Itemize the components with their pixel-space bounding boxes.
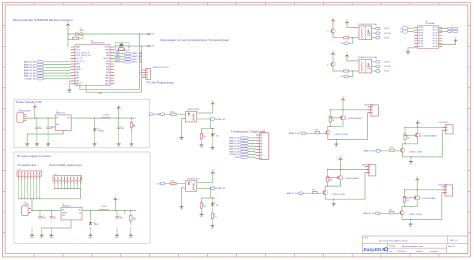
wire source to BJT (driver 3) [403,138,418,148]
wire VCC to crystal node [67,27,69,47]
svg-text:PA0: PA0 [76,71,79,74]
block box: power supply 3.3V [14,99,149,148]
transistor Q3b BC547 [400,148,404,152]
wire opto out [197,118,211,120]
capacitor C1 [35,118,42,130]
title block outline [363,236,468,254]
LED D3 [124,210,126,214]
wire U4 out rail [82,209,136,211]
svg-text:PA13: PA13 [105,80,109,83]
svg-text:8B IN8: 8B IN8 [419,46,424,48]
svg-text:R 1K: R 1K [171,111,174,113]
svg-text:OUT 7C: OUT 7C [432,43,438,45]
relay K1 RAS-0510 [359,26,372,40]
diode D2 1N5822 [89,210,99,226]
svg-text:SWCLK: SWCLK [132,62,139,64]
svg-text:1B IN1: 1B IN1 [419,27,424,29]
wire VCC to relay [347,58,359,61]
svg-text:K2-COM: K2-COM [384,66,391,68]
svg-text:PB9: PB9 [106,52,109,54]
wire resistor to base node (driver 2) [329,122,331,126]
resistor series (opto 2 LED) [211,206,217,219]
svg-text:2B IN2: 2B IN2 [419,30,424,32]
crystal load circle [80,33,83,36]
IC U2 ULN2003AN [418,26,439,49]
wire rail (driver 3) [405,126,446,128]
svg-text:DIGITAL_IN1: DIGITAL_IN1 [25,78,36,81]
svg-text:12V: 12V [339,157,342,159]
wire VCC to Q2 [332,56,334,62]
wire emitter bottom (driver 2) [328,113,368,140]
resistor 1K (driver 3) [390,147,395,151]
inductor L2 33uH [99,206,109,211]
transistor Q1 [331,29,335,33]
svg-text:Q1: Q1 [327,31,329,33]
transistor Q4b BC547 [323,190,327,194]
svg-text:BOOT0: BOOT0 [103,58,109,60]
net flag ANALOG_IN5 (MCU left) [24,72,71,75]
wire drain (driver 4) [339,170,341,175]
svg-text:5V: 5V [455,37,457,39]
wire IN2 port up [349,71,353,77]
svg-text:R 1K: R 1K [389,210,392,212]
svg-text:ANALOG_IN2: ANALOG_IN2 [229,139,240,142]
regulator U3 AMS1117-3.3 [51,115,71,130]
svg-text:GND: GND [180,209,183,211]
svg-text:R 1K: R 1K [315,130,318,132]
svg-text:GND: GND [410,163,413,165]
svg-text:Q 2N5551_C9014B: Q 2N5551_C9014B [409,214,422,216]
wire TTL pins [140,72,143,74]
svg-text:C1: C1 [39,127,41,129]
net port 3V3 out [149,113,161,116]
svg-text:EasyEDA: EasyEDA [364,247,386,253]
svg-text:3V3: 3V3 [139,59,142,61]
net flag ANALOG_IN5 (analog conn) [229,148,256,151]
power flag VCC (relay K1 coil) [345,20,349,25]
svg-text:R 1K: R 1K [390,147,393,149]
MOSFET Q3 [415,133,420,138]
wire U4 gnd [42,220,71,228]
svg-text:R: R [214,215,215,217]
wire base (driver 5) [394,212,400,214]
svg-text:GND: GND [93,146,96,148]
svg-text:TITLE:: TITLE: [364,238,369,240]
boxed crystal Y2 32kHz [115,43,130,51]
svg-text:5B IN5: 5B IN5 [419,38,424,40]
regulator U4 LM2596S-5.0 [61,207,82,220]
svg-text:GND: GND [130,146,133,148]
net port ANALOG_IN2 (driver 3) [364,150,381,153]
power flag VCC (relay K1 driver) [331,18,335,23]
power flag +3V3 out [117,105,121,110]
svg-text:Mekatronik Andalan Prima: Mekatronik Andalan Prima [402,245,423,248]
svg-text:ON/OFF: ON/OFF [62,212,67,214]
wire SWD vertical 1 [139,34,141,89]
wire R to opto [176,113,185,115]
resistor R1 (crystal) [72,37,78,39]
svg-text:CONNECTOR 01 02 03 04: CONNECTOR 01 02 03 04 [152,67,169,69]
wire U3 out rail [71,117,135,119]
IC U1 STM32F103C8T6 [75,45,110,86]
capacitor C2 [46,118,52,130]
power flag VCC (driver 2) [341,97,345,102]
svg-text:Sensor by Reza Alfiani Jielani: Sensor by Reza Alfiani Jielani [379,240,408,243]
svg-text:PB5: PB5 [106,66,109,68]
resistor 10K (driver 2) [329,116,335,122]
svg-text:VIN: VIN [56,118,58,120]
svg-text:GNDS: GNDS [235,157,241,159]
svg-text:OUT 5C: OUT 5C [432,38,438,40]
ground (5V block x=90.5) [89,227,93,239]
svg-text:PA12: PA12 [105,82,109,85]
IC U1 pin names [76,46,109,86]
svg-text:C3: C3 [121,127,123,129]
net port K2_NO [372,61,390,64]
svg-text:REV: 1.0: REV: 1.0 [450,240,457,242]
svg-text:CN6 MOTOR: CN6 MOTOR [364,105,374,107]
svg-text:Q2: Q2 [327,64,329,66]
svg-text:LED: LED [216,205,219,207]
svg-text:GND: GND [35,146,38,148]
net flag GND (top) [146,33,155,36]
resistor R3 220 [130,210,136,225]
svg-text:ANALOG_IN5: ANALOG_IN5 [24,72,36,75]
svg-text:10K: 10K [203,137,206,139]
transistor Q2b BC547 [326,131,330,135]
capacitor C4 [38,210,46,219]
wire bundle down to input [31,199,33,211]
svg-text:R: R [407,136,408,138]
LED D1 [93,118,104,132]
transistor Q2 [331,62,335,66]
ground (driver 4) [332,199,336,207]
svg-text:8MHz: 8MHz [80,30,84,32]
svg-text:5V: 5V [332,51,334,53]
svg-text:VSS_1 VSS_2: VSS_1 VSS_2 [74,83,83,85]
svg-text:ANALOG_IN4: ANALOG_IN4 [363,212,374,215]
net flag DIGITAL_IN1 (MCU left) [25,78,71,81]
svg-text:GNDS: GNDS [40,237,44,239]
svg-text:12V: 12V [342,97,345,99]
svg-text:3B IN3: 3B IN3 [419,32,424,34]
svg-text:OUT 4C: OUT 4C [432,35,438,37]
svg-text:D1: D1 [98,129,100,131]
connector load (driver 2) [368,105,379,116]
svg-text:ANALOG_IN3: ANALOG_IN3 [287,192,298,195]
resistor R1 1K [344,37,349,39]
wire IN1 port up [349,38,353,44]
svg-text:GND: GND [409,226,412,228]
power flag VCC (driver 3) [416,120,420,125]
net flag USART1_TX (MCU right) [114,51,142,55]
svg-text:5V positive input: 5V positive input [18,164,37,167]
wire opto to pulldown [202,198,216,203]
ground (3V3 block x=48.1) [46,130,50,148]
svg-text:ANALOG_IN1: ANALOG_IN1 [289,132,300,135]
svg-text:10K: 10K [332,120,335,122]
wire VCC to opto collector [197,106,213,114]
wire gate link (driver 3) [405,134,415,136]
net flag ANALOG_IN4 (analog conn) [229,145,256,148]
resistor R2 1K [344,70,349,72]
svg-text:3V3: 3V3 [139,53,142,55]
svg-text:MICROUSB-SMD: MICROUSB-SMD [19,110,32,112]
svg-text:K2-NC: K2-NC [384,71,390,73]
svg-text:220: 220 [133,219,136,221]
svg-text:4B IN4: 4B IN4 [419,35,424,37]
svg-text:ANALOG_IN6: ANALOG_IN6 [24,75,36,78]
svg-text:OUT: OUT [78,210,81,212]
connector CN2 header 8 [17,169,42,179]
net port U2 out B [439,30,458,33]
title block dividers [363,236,468,254]
ground (5V block x=51.3) [49,227,53,239]
power flag VCC (relay K2 coil) [345,53,349,58]
ground (3V3 block x=27.2) [25,143,29,148]
svg-text:Q 2N5551_C9014B: Q 2N5551_C9014B [409,152,422,154]
svg-text:PA14: PA14 [105,77,109,80]
svg-text:GND: GND [117,146,120,148]
LED (opto 1) [211,129,219,138]
connector load (driver 4) [365,165,376,176]
svg-text:Microcontroller STM32C8 Minimu: Microcontroller STM32C8 Minimum System [13,18,73,22]
connector P1 TTL [142,69,151,80]
svg-text:GND: GND [200,216,203,218]
ground (driver 5) [409,219,413,227]
power flag down (U2) [454,37,457,42]
ground (driver 2) [334,139,338,147]
net port U2 out A [439,27,458,30]
net port opto 2 input [157,182,164,185]
ground (opto 2 LED) [211,218,215,229]
svg-text:PB8: PB8 [106,55,109,57]
svg-text:104: 104 [53,218,56,220]
svg-text:3V3: 3V3 [139,56,142,58]
svg-text:U EL817/PC817C: U EL817/PC817C [187,179,201,181]
net port DIGITAL_IN2 [210,187,225,190]
wire U3 gnd [27,130,63,142]
resistor 1K (opto 1) [171,111,177,115]
wire R to relay coil [349,37,359,39]
net flag ANALOG_IN2 (analog conn) [229,139,256,142]
svg-text:PC14_OSC32_IN: PC14_OSC32_IN [76,52,90,54]
wire rail to resistor (driver 3) [404,127,406,134]
connector load (driver 3) [442,125,453,134]
net flag SWCLK (MCU right) [114,61,142,64]
svg-text:GND: GND [47,146,50,148]
wire VCC down (driver 5) [416,182,418,190]
svg-text:GND: GND [211,228,214,230]
svg-text:GND: GND [62,215,65,217]
connector J1 MICROUSB [17,112,27,122]
wire crystal node to GND flag [68,33,146,35]
svg-text:C4: C4 [42,216,44,218]
svg-text:Q 2N5551_C9014B: Q 2N5551_C9014B [334,134,347,136]
resistor 10K (driver 3) [404,134,410,140]
svg-text:220: 220 [214,216,217,218]
svg-text:PB7: PB7 [106,61,109,63]
svg-text:LED: LED [216,136,219,138]
svg-text:GND: GND [335,146,338,148]
net flag GND (BOOT) [146,45,155,48]
svg-text:5V: 5V [332,18,334,20]
svg-text:10K: 10K [330,180,333,182]
ground (U2) [406,51,410,56]
svg-text:IN1: IN1 [341,43,344,45]
svg-text:Company:: Company: [389,246,396,248]
svg-text:Power Supply 3.3V: Power Supply 3.3V [16,100,42,104]
svg-text:SWDIO: SWDIO [132,59,138,61]
net flag GNDS (analog conn) [235,156,256,159]
svg-text:R: R [203,204,204,206]
net port K2_NC [372,70,390,73]
power flag VCC (driver 4) [339,157,343,162]
wire drain (driver 2) [342,110,344,115]
svg-text:GND: GND [407,54,410,56]
svg-text:rezajielani: rezajielani [430,250,438,253]
wire Q1 emitter to R [333,33,344,37]
ground (3V3 block x=94.6) [93,130,97,148]
net port K2_COM [372,65,392,68]
wire source to BJT (driver 2) [328,120,343,130]
svg-text:LED3MM: LED3MM [98,131,105,133]
wire U2 GND [408,48,418,51]
wire resistor to base node (driver 3) [404,140,406,144]
wire gate link (driver 4) [328,177,338,179]
svg-text:TTL for Programming: TTL for Programming [146,81,174,85]
ground (opto 1 in) [180,136,184,141]
svg-text:5V: 5V [34,104,36,106]
wire resistor to base node (driver 5) [404,202,406,206]
wire 5V in rail [31,209,61,211]
svg-text:Q 2N5551_C9014B: Q 2N5551_C9014B [332,194,345,196]
svg-text:10uF: 10uF [121,128,124,130]
wire opto left low to gnd [182,188,186,206]
MOSFET Q5 [415,195,420,200]
svg-text:B: B [400,32,401,34]
svg-text:GNDS: GNDS [115,237,119,239]
svg-text:PB3: PB3 [106,72,109,74]
wire resistor to base node (driver 4) [327,182,329,186]
svg-text:5V: 5V [114,197,116,199]
block box: 5V power supply [14,152,150,243]
wire emitter bottom (driver 3) [403,130,443,157]
svg-text:R: R [203,135,204,137]
ground (opto 1 LED) [211,136,215,151]
svg-text:3V3: 3V3 [117,105,120,107]
wire VCC down (driver 2) [342,102,344,110]
svg-text:OUT 8C: OUT 8C [432,46,438,48]
wire emitter bottom (driver 4) [325,173,365,200]
svg-text:L2 33uH: L2 33uH [101,206,106,208]
wire gate link (driver 5) [405,197,415,199]
svg-text:PB4: PB4 [106,69,109,71]
svg-text:K2-NO: K2-NO [384,62,390,64]
svg-text:U EL817/PC817C: U EL817/PC817C [187,109,201,111]
power flag VCC (crystal area) [66,22,70,27]
net flag DIGITAL_IN1 (analog conn) [230,153,256,156]
wire port to R [165,113,171,115]
resistor 10K (opto 1) [200,134,206,139]
wire VCC to relay [347,25,359,28]
resistor 10K (driver 5) [403,196,409,202]
svg-text:ANALOG_IN4: ANALOG_IN4 [24,69,36,72]
ground (opto 2 R) [200,208,204,218]
svg-text:ANALOG_IN5: ANALOG_IN5 [229,148,240,151]
net port K1_NO [372,27,390,30]
svg-text:220uF: 220uF [119,218,123,220]
svg-text:ANALOG_IN3: ANALOG_IN3 [229,142,240,145]
power flag VCC (relay K2 driver) [331,51,335,56]
svg-text:GNDS: GNDS [89,237,93,239]
svg-text:PC15_OSC32_OUT: PC15_OSC32_OUT [76,55,91,57]
wire rail to resistor (driver 4) [327,170,329,177]
wire VCC down (driver 3) [417,125,419,127]
wire rail to resistor (driver 2) [329,110,331,117]
svg-text:L1 100uH: L1 100uH [103,114,109,116]
net flag ANALOG_IN4 (MCU left) [24,69,71,72]
svg-text:OUT 2C: OUT 2C [432,30,438,32]
svg-text:ANALOG_IN1: ANALOG_IN1 [229,137,240,140]
wire rail (driver 2) [330,109,371,111]
svg-text:6B IN6: 6B IN6 [419,41,424,43]
svg-text:NRST: NRST [76,64,81,66]
svg-text:Output actuator, pin 1 and 2 f: Output actuator, pin 1 and 2 for led and… [160,39,230,42]
svg-text:3V3: 3V3 [139,62,142,64]
net flag ANALOG_IN1 (analog conn) [229,137,256,140]
wire R to relay coil [349,70,359,72]
optocoupler U EL817 (2) [186,181,197,192]
wire gate link (driver 2) [330,117,340,119]
net flag ANALOG_IN1 (MCU left) [24,61,71,64]
svg-text:R 1K: R 1K [312,189,315,191]
svg-text:IN2: IN2 [157,183,160,185]
svg-text:VBAT: VBAT [76,46,80,49]
svg-text:3V3: 3V3 [212,170,215,172]
resistor R2 220 [130,118,135,132]
svg-text:PA15: PA15 [105,74,109,77]
logo EasyEDA [364,247,388,253]
wire base (driver 3) [394,150,400,152]
transistor Q5b BC547 [400,211,404,215]
MOSFET Q2 [340,115,345,120]
svg-text:GNDS: GNDS [129,237,133,239]
wire to BOOT GND flag [115,45,142,47]
svg-text:CN7 MOTOR: CN7 MOTOR [439,122,449,124]
svg-text:5V power supply for sensor: 5V power supply for sensor [17,154,51,158]
net port IN1 [341,42,349,45]
wire base (driver 4) [317,192,323,194]
net port ANALOG_IN4 (driver 5) [363,212,380,215]
IC U2 pin stubs [414,27,442,46]
svg-text:104: 104 [50,128,53,130]
svg-text:OSC_OUT: OSC_OUT [76,61,84,63]
net port IN2 [341,75,349,78]
net flag ANALOG_IN6 (analog conn) [229,150,256,153]
svg-text:C5: C5 [53,216,55,218]
svg-text:2015-01-26: 2015-01-26 [397,251,406,253]
capacitor C3 [117,118,124,130]
ground (3V3 block x=118.7) [117,130,121,148]
MOSFET Q4 [338,175,343,180]
svg-text:GNDS: GNDS [49,237,53,239]
svg-text:PB6: PB6 [106,64,109,66]
svg-text:GND: GND [26,146,29,148]
svg-text:FB: FB [79,212,81,214]
ground (5V block x=41.7) [40,227,44,239]
svg-text:Y1: Y1 [80,28,82,30]
